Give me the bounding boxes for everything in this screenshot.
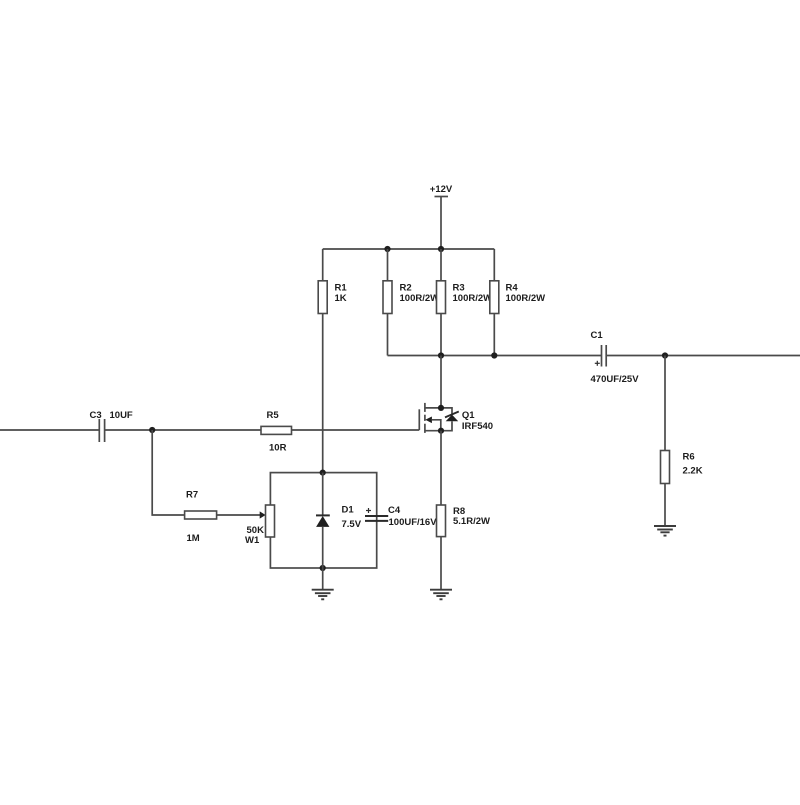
junction top bus R3 bbox=[438, 246, 444, 252]
wire C3 to R5 bbox=[105, 429, 261, 431]
resistor R8 bbox=[437, 505, 490, 590]
svg-text:10UF: 10UF bbox=[110, 410, 133, 421]
svg-text:10R: 10R bbox=[269, 443, 287, 454]
svg-text:D1: D1 bbox=[342, 505, 355, 516]
svg-text:R4: R4 bbox=[506, 283, 519, 294]
svg-text:R7: R7 bbox=[186, 490, 198, 501]
wire source bbox=[440, 431, 442, 505]
svg-text:1M: 1M bbox=[187, 533, 200, 544]
resistor R1 bbox=[318, 249, 347, 314]
svg-text:+12V: +12V bbox=[430, 184, 453, 195]
wire input bbox=[0, 429, 99, 431]
junction box top bbox=[320, 470, 326, 476]
capacitor C1 bbox=[591, 330, 640, 385]
svg-text:IRF540: IRF540 bbox=[462, 421, 493, 432]
svg-text:R1: R1 bbox=[335, 283, 348, 294]
resistor R5 bbox=[261, 410, 292, 454]
wire R1 to regulator box bbox=[322, 314, 324, 473]
svg-text:W1: W1 bbox=[245, 535, 260, 546]
power +12V bbox=[430, 184, 453, 249]
resistor R7 bbox=[185, 490, 217, 545]
resistor R4 bbox=[490, 249, 545, 356]
svg-text:7.5V: 7.5V bbox=[342, 519, 362, 530]
svg-text:470UF/25V: 470UF/25V bbox=[591, 374, 640, 385]
capacitor C3 bbox=[90, 410, 133, 442]
junction box bottom bbox=[320, 565, 326, 571]
wire output right bbox=[606, 355, 800, 357]
svg-text:R3: R3 bbox=[453, 283, 465, 294]
svg-text:2.2K: 2.2K bbox=[683, 466, 703, 477]
svg-text:1K: 1K bbox=[335, 293, 347, 304]
svg-text:C1: C1 bbox=[591, 330, 604, 341]
resistor R6 bbox=[661, 451, 703, 526]
potentiometer W1 bbox=[245, 505, 275, 546]
wire R5 to gate bbox=[292, 429, 420, 431]
zener diode D1 bbox=[316, 473, 362, 568]
svg-text:R6: R6 bbox=[683, 452, 695, 463]
ground under R8 bbox=[430, 590, 452, 600]
svg-text:Q1: Q1 bbox=[462, 410, 475, 421]
resistor R3 bbox=[437, 249, 493, 356]
svg-text:R2: R2 bbox=[400, 283, 412, 294]
svg-text:100R/2W: 100R/2W bbox=[453, 293, 493, 304]
junction output bus drain bbox=[438, 352, 444, 358]
wire top bus bbox=[323, 248, 495, 250]
ground under box bbox=[312, 568, 334, 599]
junction top bus R2 bbox=[384, 246, 390, 252]
wire R7 to wiper bbox=[217, 514, 261, 516]
regulator box outline bbox=[270, 473, 376, 568]
capacitor C4 bbox=[365, 505, 437, 528]
junction output bus R4 bbox=[491, 352, 497, 358]
junction output R6 bbox=[662, 352, 668, 358]
wire drain bbox=[440, 356, 442, 408]
wire R6 top lead bbox=[664, 356, 666, 451]
ground under R6 bbox=[654, 526, 676, 536]
wire output bus bbox=[388, 355, 602, 357]
junction input node bbox=[149, 427, 155, 433]
svg-text:R5: R5 bbox=[267, 410, 280, 421]
mosfet Q1 bbox=[419, 403, 493, 434]
svg-text:100R/2W: 100R/2W bbox=[506, 293, 546, 304]
svg-text:100UF/16V: 100UF/16V bbox=[389, 517, 438, 528]
svg-text:C4: C4 bbox=[388, 505, 401, 516]
svg-text:100R/2W: 100R/2W bbox=[400, 293, 440, 304]
wire input node down bbox=[152, 430, 184, 515]
wiper arrow bbox=[260, 511, 266, 518]
svg-text:5.1R/2W: 5.1R/2W bbox=[453, 516, 490, 527]
resistor R2 bbox=[383, 249, 439, 356]
